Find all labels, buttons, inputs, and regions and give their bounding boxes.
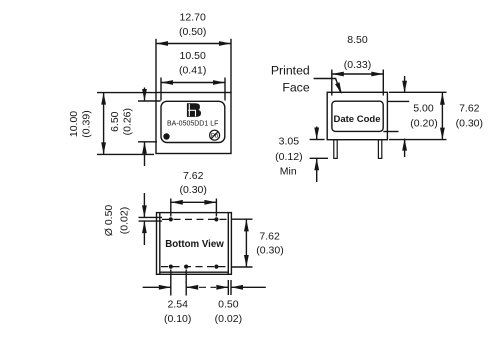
svg-text:7.62: 7.62 [183,170,204,182]
svg-text:12.70: 12.70 [180,12,206,24]
dim 7.62 top extension lines [170,199,172,217]
svg-text:(0.12): (0.12) [275,151,302,163]
svg-text:2.54: 2.54 [167,299,188,311]
dim 5.00 extension lines [389,91,447,93]
side view right pin [378,140,381,159]
bottom view inner left edge [159,213,161,275]
dim 10.00 extension lines [97,92,156,94]
pin diameter dim line with outside arrows [143,193,145,217]
bottom view outer case [157,213,232,275]
svg-text:10.50: 10.50 [180,50,206,62]
svg-text:7.62: 7.62 [259,230,280,242]
svg-text:7.62: 7.62 [459,103,480,115]
svg-text:5.00: 5.00 [413,103,434,115]
0.50 gap ticks [227,280,229,295]
Pb-free mark [210,130,220,140]
svg-text:(0.41): (0.41) [179,65,206,77]
side view left pin [334,140,337,159]
top row pin dots [169,217,173,221]
svg-text:(0.02): (0.02) [215,313,242,325]
dim 3.05 extension ticks [310,139,325,141]
svg-text:(0.30): (0.30) [179,184,206,196]
bottom dim extension lines from pins [170,270,172,296]
front view outer case [156,93,231,154]
svg-text:(0.26): (0.26) [122,108,134,135]
svg-text:8.50: 8.50 [347,34,368,46]
pin diameter ticks [139,216,163,218]
svg-text:(0.20): (0.20) [410,118,437,130]
pin 1 dot [163,133,169,139]
dim 8.50 line [332,73,384,75]
svg-text:6.50: 6.50 [109,111,121,132]
dim 10.50 line [161,82,225,84]
bottom dim line segments [143,286,171,288]
svg-text:0.50: 0.50 [218,299,239,311]
dim 3.05 line with outside arrows [316,127,318,140]
dim 7.62 line (side) [441,92,443,139]
bottom view inner right edge [227,213,229,275]
dim 7.62 top line [171,201,217,203]
svg-text:(0.10): (0.10) [164,313,191,325]
Printed Face leader [314,79,341,92]
dim 10.50 extension lines [160,78,162,101]
svg-text:(0.39): (0.39) [81,110,93,137]
svg-text:Bottom View: Bottom View [165,239,224,250]
side view outer case [327,92,387,139]
bottom row pin dots [169,265,173,269]
top pin row dashed centerline [162,218,227,220]
dim 12.70 extension lines [155,39,157,93]
svg-text:BA-0505DD1 LF: BA-0505DD1 LF [167,121,218,128]
dim 10.00 line [103,93,105,155]
svg-text:10.00: 10.00 [68,111,80,137]
dim 6.50 line with outside arrows [144,88,146,102]
svg-text:Ø 0.50: Ø 0.50 [103,205,115,237]
svg-text:3.05: 3.05 [279,136,300,148]
svg-text:(0.30): (0.30) [256,244,283,256]
svg-text:(0.30): (0.30) [456,118,483,130]
bottom view inner bottom edge [160,271,229,273]
svg-text:Min: Min [280,166,297,178]
svg-text:Face: Face [282,81,309,95]
svg-text:(0.33): (0.33) [344,59,371,71]
dim 8.50 extension lines [331,70,333,96]
side view printed face rounded rect [332,101,383,131]
svg-text:(0.50): (0.50) [179,26,206,38]
dim 7.62 right line (bottom view) [232,218,253,220]
front view printed face rounded rect [161,101,225,142]
Bel logo [187,103,201,117]
bottom pin row dashed centerline [161,266,227,268]
dim 5.00 line with outside arrows [404,76,406,93]
dim 6.50 extension lines [138,100,161,102]
dim 12.70 line [156,43,231,45]
svg-text:Date Code: Date Code [334,114,381,125]
svg-text:(0.02): (0.02) [119,207,131,234]
svg-text:Printed: Printed [271,64,310,78]
